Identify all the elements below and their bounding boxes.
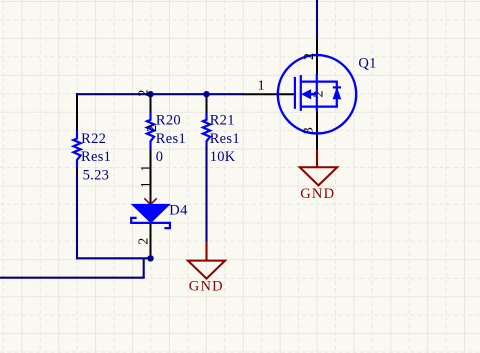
junction node (bottom): [147, 255, 153, 261]
svg-text:1: 1: [139, 165, 154, 172]
pin Q1.1 gate: [243, 93, 294, 95]
svg-text:2: 2: [137, 90, 152, 97]
svg-text:R21: R21: [210, 112, 235, 128]
resistor R22: [73, 131, 80, 168]
pin R22.1: [76, 167, 78, 175]
svg-text:R22: R22: [81, 131, 106, 147]
Q1 source stub: [301, 105, 338, 107]
Q1 center bar: [316, 74, 318, 111]
svg-text:0: 0: [156, 149, 164, 165]
resistor R20: [147, 112, 154, 149]
wire to GND (R21): [205, 242, 207, 261]
wire bottom L to left edge: [143, 258, 145, 278]
Q1 body arrow: [302, 90, 310, 99]
no-ERC marker X: [144, 198, 156, 210]
pin R21.1: [206, 146, 208, 149]
Q1 channel bar: [300, 75, 302, 111]
svg-text:2: 2: [302, 53, 317, 60]
svg-text:2: 2: [137, 238, 152, 245]
pin R21.2: [206, 93, 208, 113]
pin R20.1 / D4.1: [150, 148, 152, 204]
Q1 gate bar: [294, 77, 296, 109]
svg-text:D4: D4: [169, 203, 188, 219]
pin R20.2: [150, 93, 152, 113]
svg-text:Res1: Res1: [210, 131, 240, 147]
resistor R21: [203, 113, 210, 147]
svg-text:Res1: Res1: [156, 131, 186, 147]
pin D4.2: [150, 224, 152, 259]
wire R22 lower left: [76, 174, 78, 260]
pin Q1.3 source: [316, 111, 318, 150]
svg-text:1: 1: [139, 181, 154, 188]
Q1 body diode: [333, 86, 341, 88]
wire mosfet drain net: [316, 0, 318, 38]
wire to GND (Q1 source): [316, 150, 318, 168]
svg-text:1: 1: [258, 78, 265, 93]
junction node (R21 top): [203, 91, 209, 97]
svg-text:10K: 10K: [210, 149, 236, 165]
diode D4 schottky bar: [131, 218, 170, 228]
transistor Q1 circle: [278, 55, 356, 133]
wire top bus: [76, 93, 244, 95]
junction node (R20 top): [147, 91, 153, 97]
pin R22.2: [76, 93, 78, 131]
ground (Q1 source): [300, 167, 338, 185]
wire R21 to GND: [205, 148, 207, 242]
svg-text:3: 3: [302, 127, 317, 134]
svg-text:5.23: 5.23: [83, 168, 110, 184]
svg-text:Res1: Res1: [81, 149, 111, 165]
Q1 drain stub: [301, 80, 338, 82]
svg-text:2: 2: [145, 125, 160, 132]
svg-text:GND: GND: [300, 186, 335, 202]
svg-text:GND: GND: [189, 279, 224, 295]
Q1 right rail: [336, 82, 338, 107]
diode D4 triangle: [132, 204, 170, 222]
ground (R21): [188, 261, 225, 279]
pin Q1.2 drain: [316, 38, 318, 74]
svg-text:Q1: Q1: [358, 56, 376, 72]
